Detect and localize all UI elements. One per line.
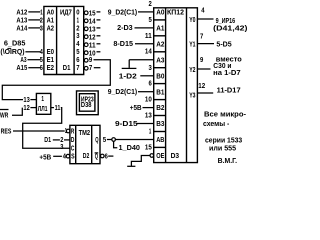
D1 out bubble 3 (84, 35, 88, 39)
svg-text:A15: A15 (16, 63, 28, 72)
wire RES to TM2 R (13, 130, 65, 132)
wire to A2 (135, 43, 154, 45)
multiplexer D3 KP12 box (154, 8, 198, 163)
svg-text:1_D40: 1_D40 (119, 143, 141, 152)
pin 15 stub (97, 11, 101, 13)
OE bubble (150, 154, 154, 158)
D1 out bubble 2 (84, 27, 88, 31)
svg-text:схемы -: схемы - (203, 119, 230, 128)
wire pin13 into gate (30, 99, 36, 101)
wire pin2 into TM2 (64, 139, 70, 141)
svg-text:B2: B2 (156, 103, 164, 112)
KP12 divider right (186, 8, 188, 163)
svg-text:+5В: +5В (130, 103, 142, 112)
wire to A0 (138, 11, 154, 13)
D1 out bubble 1 (84, 19, 88, 23)
pin 12 stub (97, 35, 101, 37)
svg-text:11: 11 (55, 103, 61, 112)
svg-text:11: 11 (145, 31, 153, 40)
TM2 Qbar overbar (95, 152, 99, 154)
svg-text:15: 15 (145, 143, 153, 152)
pin 11 stub (97, 43, 101, 45)
svg-text:(D41,42): (D41,42) (213, 23, 248, 32)
TM2 S input bubble (66, 154, 70, 158)
svg-text:9-D15: 9-D15 (115, 119, 139, 128)
wire Q to junction (107, 139, 112, 141)
D1 out bubble 0 (84, 11, 88, 15)
svg-text:или 555: или 555 (209, 143, 237, 152)
svg-text:Q: Q (95, 135, 98, 144)
wire Y2 out (197, 68, 210, 70)
svg-text:A2: A2 (156, 39, 164, 48)
wire to B3 (137, 123, 154, 125)
wire to B2 (143, 107, 154, 109)
KP12 cell tick 2 (154, 35, 166, 37)
svg-text:2: 2 (60, 135, 63, 144)
OE ground bar (127, 165, 135, 167)
wire A15 to pin6 (28, 67, 40, 69)
svg-text:D38: D38 (81, 100, 92, 109)
D1 out bubble 4 (84, 43, 88, 47)
svg-text:AB: AB (156, 135, 165, 144)
D1 out bubble 5 (84, 51, 88, 55)
svg-text:11-D17: 11-D17 (217, 85, 241, 94)
svg-text:13: 13 (145, 111, 152, 120)
flip-flop D2 TM2 box (70, 125, 100, 163)
svg-text:D1: D1 (63, 63, 71, 72)
D1 out bubble 6 (84, 58, 88, 62)
wire WR hook up to pin12 (12, 108, 22, 116)
decoder D1 box (44, 6, 84, 74)
junction circle on Q net (112, 138, 116, 142)
wire Y1 out (197, 43, 214, 45)
svg-text:5: 5 (149, 15, 153, 24)
A3 ground stem (128, 60, 130, 68)
svg-text:B3: B3 (156, 119, 164, 128)
KP12 cell tick 5 (154, 83, 166, 85)
svg-text:A2: A2 (47, 23, 54, 32)
svg-text:A0: A0 (156, 8, 164, 17)
svg-text:D3: D3 (171, 151, 180, 160)
svg-text:D1: D1 (44, 135, 51, 144)
svg-text:6_D85: 6_D85 (4, 38, 26, 47)
svg-text:3: 3 (40, 23, 43, 32)
wire to B0 (140, 75, 153, 77)
svg-text:Y1: Y1 (189, 40, 196, 49)
D1 out bubble 7 (84, 66, 88, 70)
svg-text:2-D3: 2-D3 (117, 23, 133, 32)
svg-text:Все микро-: Все микро- (204, 110, 246, 119)
svg-text:КП12: КП12 (167, 7, 184, 16)
svg-text:B0: B0 (156, 71, 164, 80)
A3 ground bar (122, 67, 137, 69)
KP12 divider left (165, 8, 167, 163)
OR gate DD1 box (36, 93, 50, 114)
svg-text:6: 6 (149, 79, 152, 88)
wire A12 to pin1 (28, 11, 40, 13)
wire D1 to TM2 D (53, 139, 60, 141)
svg-text:A14: A14 (16, 23, 28, 32)
svg-text:7: 7 (89, 63, 92, 72)
svg-text:7: 7 (76, 63, 79, 72)
OR gate output dash (51, 107, 54, 109)
svg-text:ЛЛ1: ЛЛ1 (38, 104, 48, 113)
svg-text:12: 12 (198, 81, 205, 90)
Qbar stub (108, 155, 113, 157)
svg-text:Y3: Y3 (189, 91, 195, 100)
note box ИР23 inner (79, 94, 95, 112)
KP12 cell tick 1 (154, 19, 166, 21)
TM2 divider left (75, 125, 77, 163)
svg-text:9_D2(C1): 9_D2(C1) (108, 7, 138, 16)
TM2 Qbar bubble (101, 154, 105, 158)
svg-text:1-D2: 1-D2 (119, 71, 137, 80)
TM2 R input bubble (66, 129, 70, 133)
svg-text:12: 12 (23, 103, 29, 112)
svg-text:на 1-D7: на 1-D7 (213, 68, 241, 77)
svg-text:6: 6 (40, 63, 43, 72)
wire Y3 out (197, 92, 213, 94)
svg-text:9: 9 (200, 55, 203, 64)
svg-text:1: 1 (149, 127, 152, 136)
KP12 cell tick 6 (154, 99, 166, 101)
wire Y0 out (197, 18, 213, 20)
wire A14 to pin3 (28, 27, 40, 29)
svg-text:5-D5: 5-D5 (216, 40, 232, 49)
wire OE to ground (131, 156, 150, 167)
wire Q net to KP12 AB (116, 139, 154, 141)
KP12 cell tick 7 (154, 115, 166, 117)
svg-text:S: S (71, 151, 75, 160)
svg-text:7: 7 (200, 31, 203, 40)
net WR overbar (0, 109, 9, 111)
wire pin9 loop to OR gate pin13 (2, 60, 110, 100)
svg-text:RES: RES (1, 127, 12, 136)
KP12 cell tick 4 (154, 67, 166, 69)
wire +5V to TM2 S (53, 155, 62, 157)
svg-text:6: 6 (105, 151, 108, 160)
svg-text:B1: B1 (156, 87, 165, 96)
decoder D1 divider right (73, 6, 75, 74)
svg-text:Y2: Y2 (189, 65, 195, 74)
svg-text:3: 3 (149, 63, 152, 72)
svg-text:9_D2(C1): 9_D2(C1) (108, 87, 138, 96)
svg-text:OE: OE (156, 151, 164, 160)
pin 14 stub (97, 19, 101, 21)
svg-text:E2: E2 (47, 63, 54, 72)
wire pin11 down-left-down to TM2 C (23, 108, 70, 149)
wire Q branch down to 1_D40 (114, 141, 118, 147)
KP12 cell tick 3 (154, 51, 166, 53)
wire A3 to pin5 (28, 59, 41, 61)
svg-text:R: R (71, 127, 75, 136)
svg-text:14: 14 (145, 47, 153, 56)
svg-text:A1: A1 (156, 24, 165, 33)
svg-text:WR: WR (0, 111, 9, 120)
wire to A1 (135, 27, 154, 29)
svg-text:D2: D2 (83, 151, 90, 160)
TM2 divider right (91, 125, 93, 163)
pin 13 stub (97, 27, 101, 29)
wire to A3 from ground tie (129, 59, 154, 61)
svg-text:ИД7: ИД7 (60, 7, 72, 16)
pin 10 stub (97, 51, 101, 53)
node \OIRQ overbar (7, 47, 11, 49)
svg-text:В.М.Г.: В.М.Г. (218, 156, 238, 165)
wire to B1 (138, 91, 154, 93)
wire A13 to pin2 (28, 19, 40, 21)
note box ИР23 outer (77, 91, 99, 115)
svg-text:ТМ2: ТМ2 (79, 128, 91, 137)
svg-text:A3: A3 (156, 55, 164, 64)
svg-text:8-D15: 8-D15 (113, 39, 133, 48)
KP12 cell tick 9 (154, 146, 166, 148)
decoder D1 divider left (56, 6, 58, 74)
KP12 cell tick 8 (154, 131, 166, 133)
svg-text:2: 2 (149, 0, 152, 8)
pin 7 stub (94, 67, 101, 69)
svg-text:+5В: +5В (39, 152, 51, 161)
wire OIRQ to pin4 (25, 51, 40, 53)
svg-text:Y0: Y0 (189, 15, 195, 24)
svg-text:10: 10 (145, 95, 152, 104)
wire pin12 into gate (30, 107, 36, 109)
